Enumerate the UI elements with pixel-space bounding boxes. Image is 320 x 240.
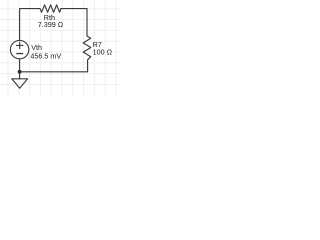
svg-text:100 Ω: 100 Ω: [93, 48, 113, 57]
svg-text:7.399 Ω: 7.399 Ω: [38, 20, 64, 29]
svg-text:456.5 mV: 456.5 mV: [30, 52, 61, 61]
